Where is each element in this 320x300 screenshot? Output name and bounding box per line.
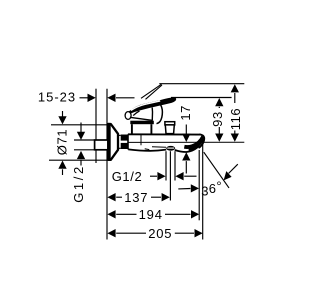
neck line bottom [118,147,121,149]
dim O71 top arrow [58,111,66,124]
svg-text:6: 6 [209,181,216,196]
handle underside left line [133,111,139,116]
svg-text:G1/2: G1/2 [71,164,86,203]
dim G1/2 middle arrows [150,172,197,180]
svg-text:116: 116 [228,108,243,131]
dim 17 upper segment [182,125,190,174]
spout mouth bottom lip [175,145,199,152]
svg-text:194: 194 [139,207,163,222]
outlet fitting ellipse [166,146,175,151]
dim 137 [107,193,169,201]
handle blade silhouette [129,97,176,113]
dim 15-23 arrow right [80,94,96,102]
svg-text:93: 93 [210,111,225,127]
knuckle ellipse [125,112,131,120]
body top edge [128,133,200,135]
extension line top of escutcheon [51,124,108,126]
escutcheon left face thick [108,124,111,160]
extension line handle tip [171,97,232,99]
body bottom edge [128,149,166,151]
handle grip right edge [151,108,153,121]
svg-text:137: 137 [124,190,148,205]
svg-text:205: 205 [148,226,172,241]
handle blade white sliver [131,101,160,111]
skirt left leg [131,124,133,134]
svg-text:15-23: 15-23 [38,90,76,105]
dim 93 arrows [215,98,223,142]
union nut upper block [121,135,128,141]
raised lever thin line 1 [141,84,162,98]
dim 116 arrows [231,84,239,142]
body interior line [129,141,245,143]
pipe through wall [95,140,109,150]
dim G1/2 left down arrow [77,123,85,140]
36 deg arrow at vertical line [178,184,199,192]
dim G1/2 left up arrow [77,151,85,166]
neck line top [118,134,121,136]
escutcheon cone [108,124,118,160]
body small dash [145,148,150,151]
right extension line B (205) [202,143,204,240]
outlet ellipse slit [167,147,174,149]
svg-text:G1/2: G1/2 [112,169,143,184]
outlet extension line left [165,151,167,180]
right extension line A (194) [198,150,200,220]
36 degree face line [204,152,229,188]
aerator cup body [165,125,174,134]
svg-text:3: 3 [201,184,208,199]
body joint vertical [140,135,142,146]
pipe extension line bottom [74,149,95,151]
wall line left [95,89,97,163]
outlet extension line right [174,151,176,180]
dome slant line [130,117,153,120]
outlet center line [169,151,171,200]
spout nose corner and right edge [199,134,205,148]
cartridge band [130,121,154,125]
raised lever thin line 2 [146,85,163,99]
extension line bottom of escutcheon [49,159,110,161]
svg-text:Ø71: Ø71 [55,129,70,155]
svg-text:17: 17 [178,105,193,121]
skirt right leg [150,124,152,134]
union nut lower block [121,143,128,149]
dim 205 [107,229,202,237]
spout cut rim band [184,137,203,147]
dim 15-23 arrow left [107,94,134,102]
handle left edge [128,112,130,118]
body left edge [127,134,129,149]
handle dive line [157,104,163,124]
36 deg arrow at diagonal [224,164,238,180]
pipe extension line top [74,139,95,141]
dim O71 bottom arrow [58,161,66,176]
svg-text:°: ° [216,179,221,194]
spout joint line [152,146,166,149]
wall line right [106,89,108,240]
dim 194 [107,210,199,218]
extension line top (lever raised) [159,83,244,85]
spout cut rim band lower [189,139,203,149]
aerator cup rim [165,122,175,125]
